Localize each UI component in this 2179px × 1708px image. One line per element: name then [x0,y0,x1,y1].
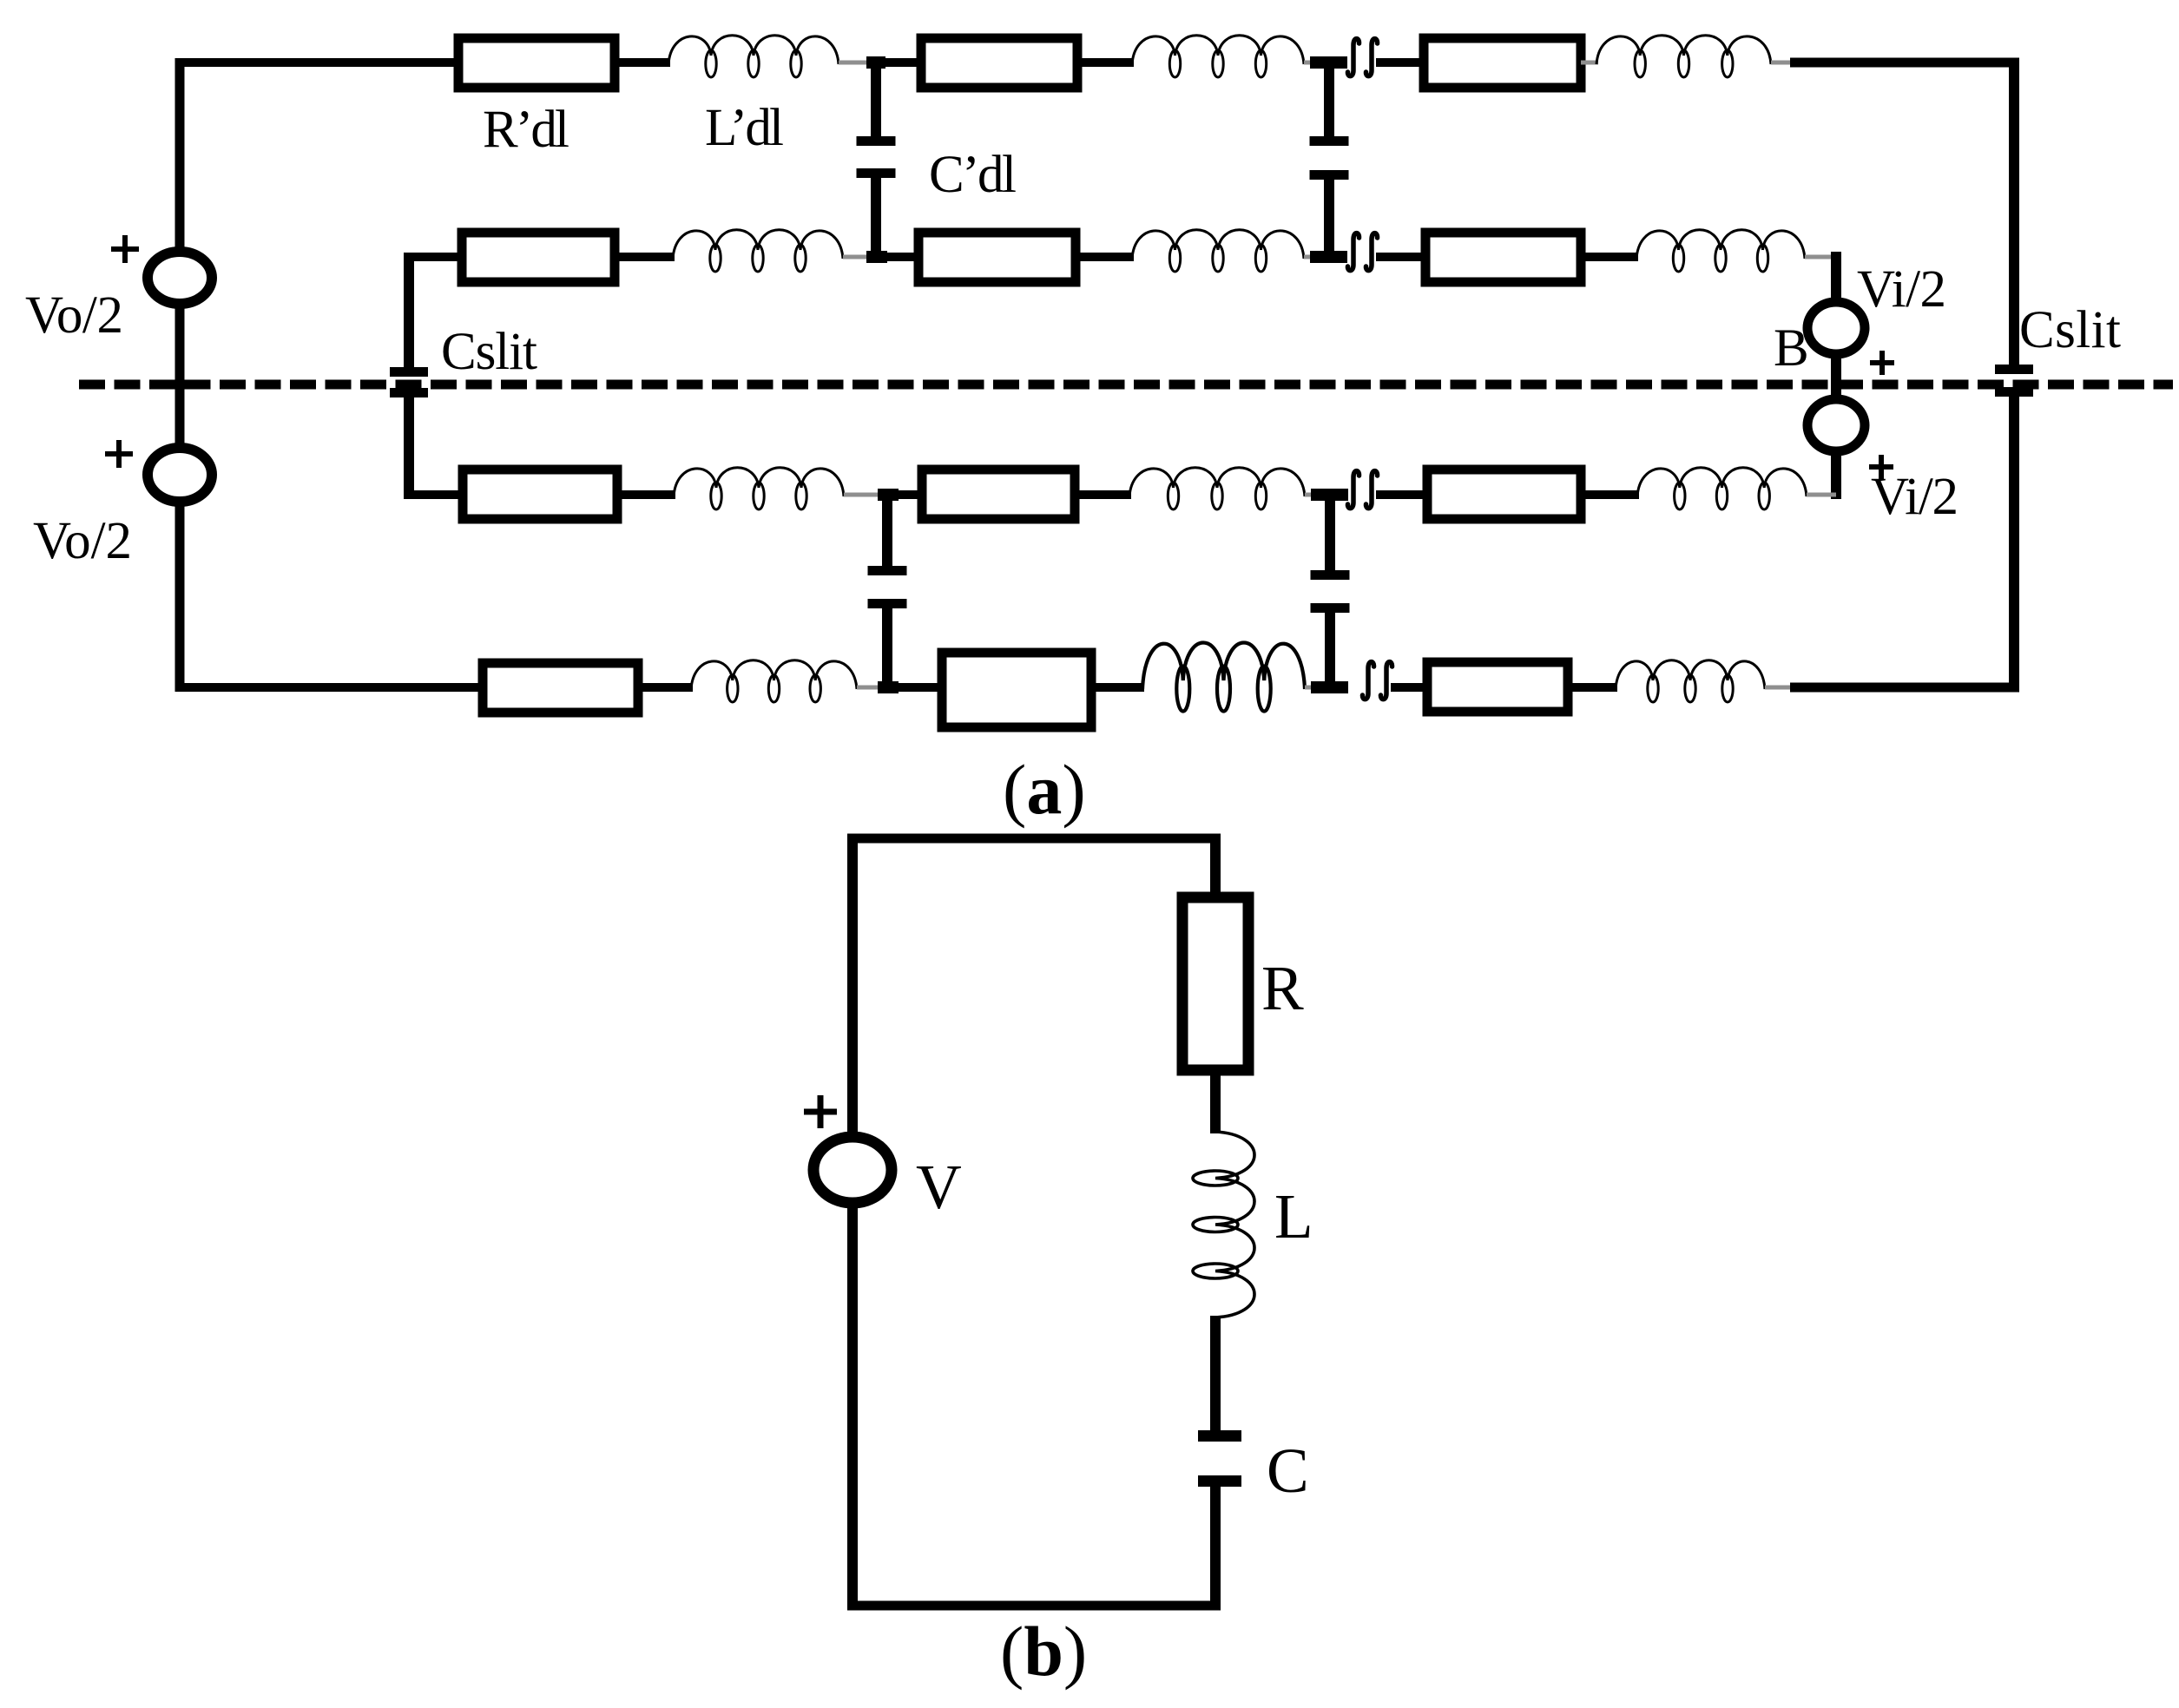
resistor R (b) [1182,897,1248,1070]
wire (b) L to C [1210,1316,1221,1430]
capacitor C’dl (fourth, rows3-4) lead lower [1325,613,1335,687]
capacitor C’dl (first, rows1-2) lead lower [871,178,881,257]
resistor (row3 #2) [922,470,1075,519]
capacitor C’dl (first, rows1-2) lead upper [871,62,881,136]
inductor (row4 #3) [1616,660,1765,702]
wire Cslit left lower lead [404,397,414,499]
dashed symmetry axis [79,380,2173,390]
wire row2 L1 to node (gray stub) [843,255,876,259]
wire row2 R3-L3 [1581,253,1638,261]
wire row2 L2 to node (gray stub) [1304,255,1325,259]
node row4/C’dl-3 junction [878,681,899,693]
inductor (row4 #2, large) [1142,643,1305,712]
wire row2 left horizontal [404,253,462,261]
inductor (row2 #3) [1636,230,1805,272]
capacitor C’dl (third, rows3-4) lead upper [882,495,892,566]
svg-text:Cslit: Cslit [441,323,537,381]
svg-text:L: L [1274,1181,1313,1251]
wire between Vo/2 sources [175,303,185,449]
node row3/C’dl-4 junction bar [1311,489,1348,501]
voltage source Vo/2 (upper) [148,252,212,304]
wire (b) bottom horizontal [847,1601,1221,1611]
label Vi/2 (upper) [1857,260,1946,319]
plus of Vo/2 (upper) [111,235,139,263]
label R (b) [1261,953,1304,1023]
svg-text:R’dl: R’dl [483,101,569,159]
break marks (row1) [1347,39,1377,76]
resistor R’dl (row1 #1) [458,38,615,88]
wire row1 L1 to node (gray stub) [839,61,876,65]
wire row4 L3 stub (gray) [1765,686,1790,690]
capacitor C’dl (third, rows3-4) lead lower [882,608,892,687]
svg-text:V: V [916,1152,962,1222]
wire row3 left horizontal [404,490,463,499]
inductor (row4 #1) [691,660,857,702]
resistor (row4 #3) [1427,662,1568,712]
wire row3 L2 to node (gray stub) [1305,493,1326,497]
resistor (row2 #3) [1425,233,1581,282]
wire row1 break to R3 [1376,58,1424,67]
inductor (row2 #1) [673,230,843,272]
label L’dl [705,99,784,157]
wire row4 L1 to node (gray stub) [857,686,887,690]
capacitor C’dl (second, rows1-2) lead lower [1324,180,1334,257]
label Vo/2 (lower) [33,512,132,570]
inductor (row3 #1) [674,468,844,509]
svg-text:(b): (b) [1000,1612,1087,1691]
label Vo/2 (upper) [25,286,123,345]
wire row4 to right corner [1790,683,2019,693]
svg-text:R: R [1261,953,1304,1023]
wire row1 L3 stub (gray) [1771,61,1790,65]
resistor (row3 #1) [463,470,617,519]
wire row2 corner vertical (to Cslit left) [404,253,414,367]
wire row4 L2 to node (gray stub) [1305,686,1326,690]
node row1/C’dl-1 junction [866,56,885,69]
capacitor Cslit (right) plates [1995,365,2033,397]
resistor (row3 #3) [1427,470,1581,519]
inductor (row3 #2) [1129,468,1305,509]
wire right vertical upper (to Cslit right) [2009,58,2019,365]
svg-text:(a): (a) [1003,750,1086,829]
wire (b) top horizontal [847,834,1221,844]
svg-text:C: C [1267,1435,1309,1506]
wire row4 left horizontal [175,683,483,692]
plus of Vi/2 (lower) [1869,455,1893,479]
svg-text:Vo/2: Vo/2 [25,286,123,345]
node row3/C’dl-3 junction [878,489,899,501]
label Cslit (left) [441,323,537,381]
inductor (row3 #3) [1637,468,1807,509]
wire (b) left vertical upper [847,834,858,1137]
capacitor C’dl (second, rows1-2) plates [1310,136,1349,180]
wire row3 R2-L2 [1075,490,1131,499]
wire row3 node to R2 [887,490,922,499]
svg-text:Vi/2: Vi/2 [1871,468,1958,526]
wire row2 corner to source B [1831,252,1841,303]
plus of Vi/2 (upper) [1870,351,1894,375]
wire row3 L3 to source column (gray stub) [1807,493,1836,497]
capacitor C’dl (third, rows3-4) plates [868,566,907,608]
svg-text:Vi/2: Vi/2 [1857,260,1946,319]
resistor (row2 #2) [918,233,1076,282]
capacitor C’dl (second, rows1-2) lead upper [1324,62,1334,136]
resistor (row4 #1) [483,663,638,713]
label L (b) [1274,1181,1313,1251]
label Vi/2 (lower) [1871,468,1958,526]
capacitor C (b) plates [1198,1430,1241,1487]
wire row4 R3-L3 [1568,683,1617,692]
inductor (row2 #2) [1132,230,1304,272]
svg-text:C’dl: C’dl [929,146,1017,204]
wire (b) R to L [1210,1070,1221,1133]
voltage source Vi/2 (upper, B) [1807,302,1865,354]
wire row2 break to R3 [1376,253,1425,261]
wire row2 L3 to corner (gray stub) [1805,255,1836,259]
wire row1 to right corner [1790,58,2019,68]
wire (b) right vertical upper [1210,834,1221,897]
svg-text:L’dl: L’dl [705,99,784,157]
wire between Vi/2 sources [1831,353,1841,400]
plus of Vo/2 (lower) [105,440,133,468]
wire row3 L1 to node (gray stub) [844,493,887,497]
label V [916,1152,962,1222]
wire row1 R1-L1 [615,58,670,67]
wire row1 L2 to node (gray stub) [1304,61,1325,65]
wire row4 left vertical (below Vo/2) [175,502,185,692]
wire row4 node to R2 [887,683,942,692]
wire row3 R1-L1 [617,490,675,499]
label R’dl [483,101,569,159]
inductor L (b) [1193,1132,1254,1317]
capacitor C’dl (first, rows1-2) plates [857,136,896,178]
inductor (row1 #3) [1596,36,1771,77]
wire row1 node to R2 [876,58,921,67]
wire (b) C to bottom [1210,1487,1221,1610]
inductor (row1 #2) [1132,36,1304,77]
label B [1774,319,1809,378]
break marks (row4) [1362,662,1392,700]
wire row3 R3-L3 [1581,490,1639,499]
voltage source V [813,1137,892,1203]
wire row3 break to R3 [1376,490,1427,499]
wire row4 R2-L2 [1091,683,1144,692]
wire row1 left horizontal [175,58,458,67]
wire row1 R2-L2 [1077,58,1134,67]
wire row2 node to R2 [876,253,918,261]
voltage source Vi/2 (lower) [1807,399,1865,451]
resistor (row1 #3) [1424,38,1581,88]
inductor L’dl (row1 #1) [668,36,839,77]
wire source to row3 [1831,450,1841,499]
capacitor C’dl (fourth, rows3-4) plates [1311,570,1350,613]
wire row4 R1-L1 [638,683,693,692]
resistor (row1 #2) [921,38,1077,88]
node row2/C’dl-1 junction [866,251,887,263]
capacitor Cslit (left) plates [390,367,428,397]
svg-text:B: B [1774,319,1809,378]
node row4/C’dl-4 junction bar [1311,681,1348,693]
node row1/C’dl-2 junction bar [1310,56,1347,69]
wire row2 R1-L1 [615,253,675,261]
svg-text:Cslit: Cslit [2019,301,2121,359]
wire (b) left vertical lower [847,1203,858,1610]
wire row4 break to R3 [1391,683,1427,692]
label C’dl [929,146,1017,204]
wire row1 R3-L3 (gray stub) [1581,61,1598,65]
wire right vertical lower [2009,397,2019,692]
label C (b) [1267,1435,1309,1506]
resistor (row4 #2, tall) [942,653,1091,727]
resistor (row2 #1) [462,233,615,282]
svg-text:Vo/2: Vo/2 [33,512,132,570]
wire left vertical (Vo/2 branch) [175,58,185,252]
label Cslit (right) [2019,301,2121,359]
break marks (row3) [1347,471,1377,509]
voltage source Vo/2 (lower) [148,448,212,502]
wire row2 R2-L2 [1076,253,1134,261]
caption (b) [1000,1612,1087,1691]
node row2/C’dl-2 junction bar [1310,251,1347,263]
plus of V [804,1095,837,1128]
capacitor C’dl (fourth, rows3-4) lead upper [1325,495,1335,570]
break marks (row2) [1347,233,1377,271]
caption (a) [1003,750,1086,829]
